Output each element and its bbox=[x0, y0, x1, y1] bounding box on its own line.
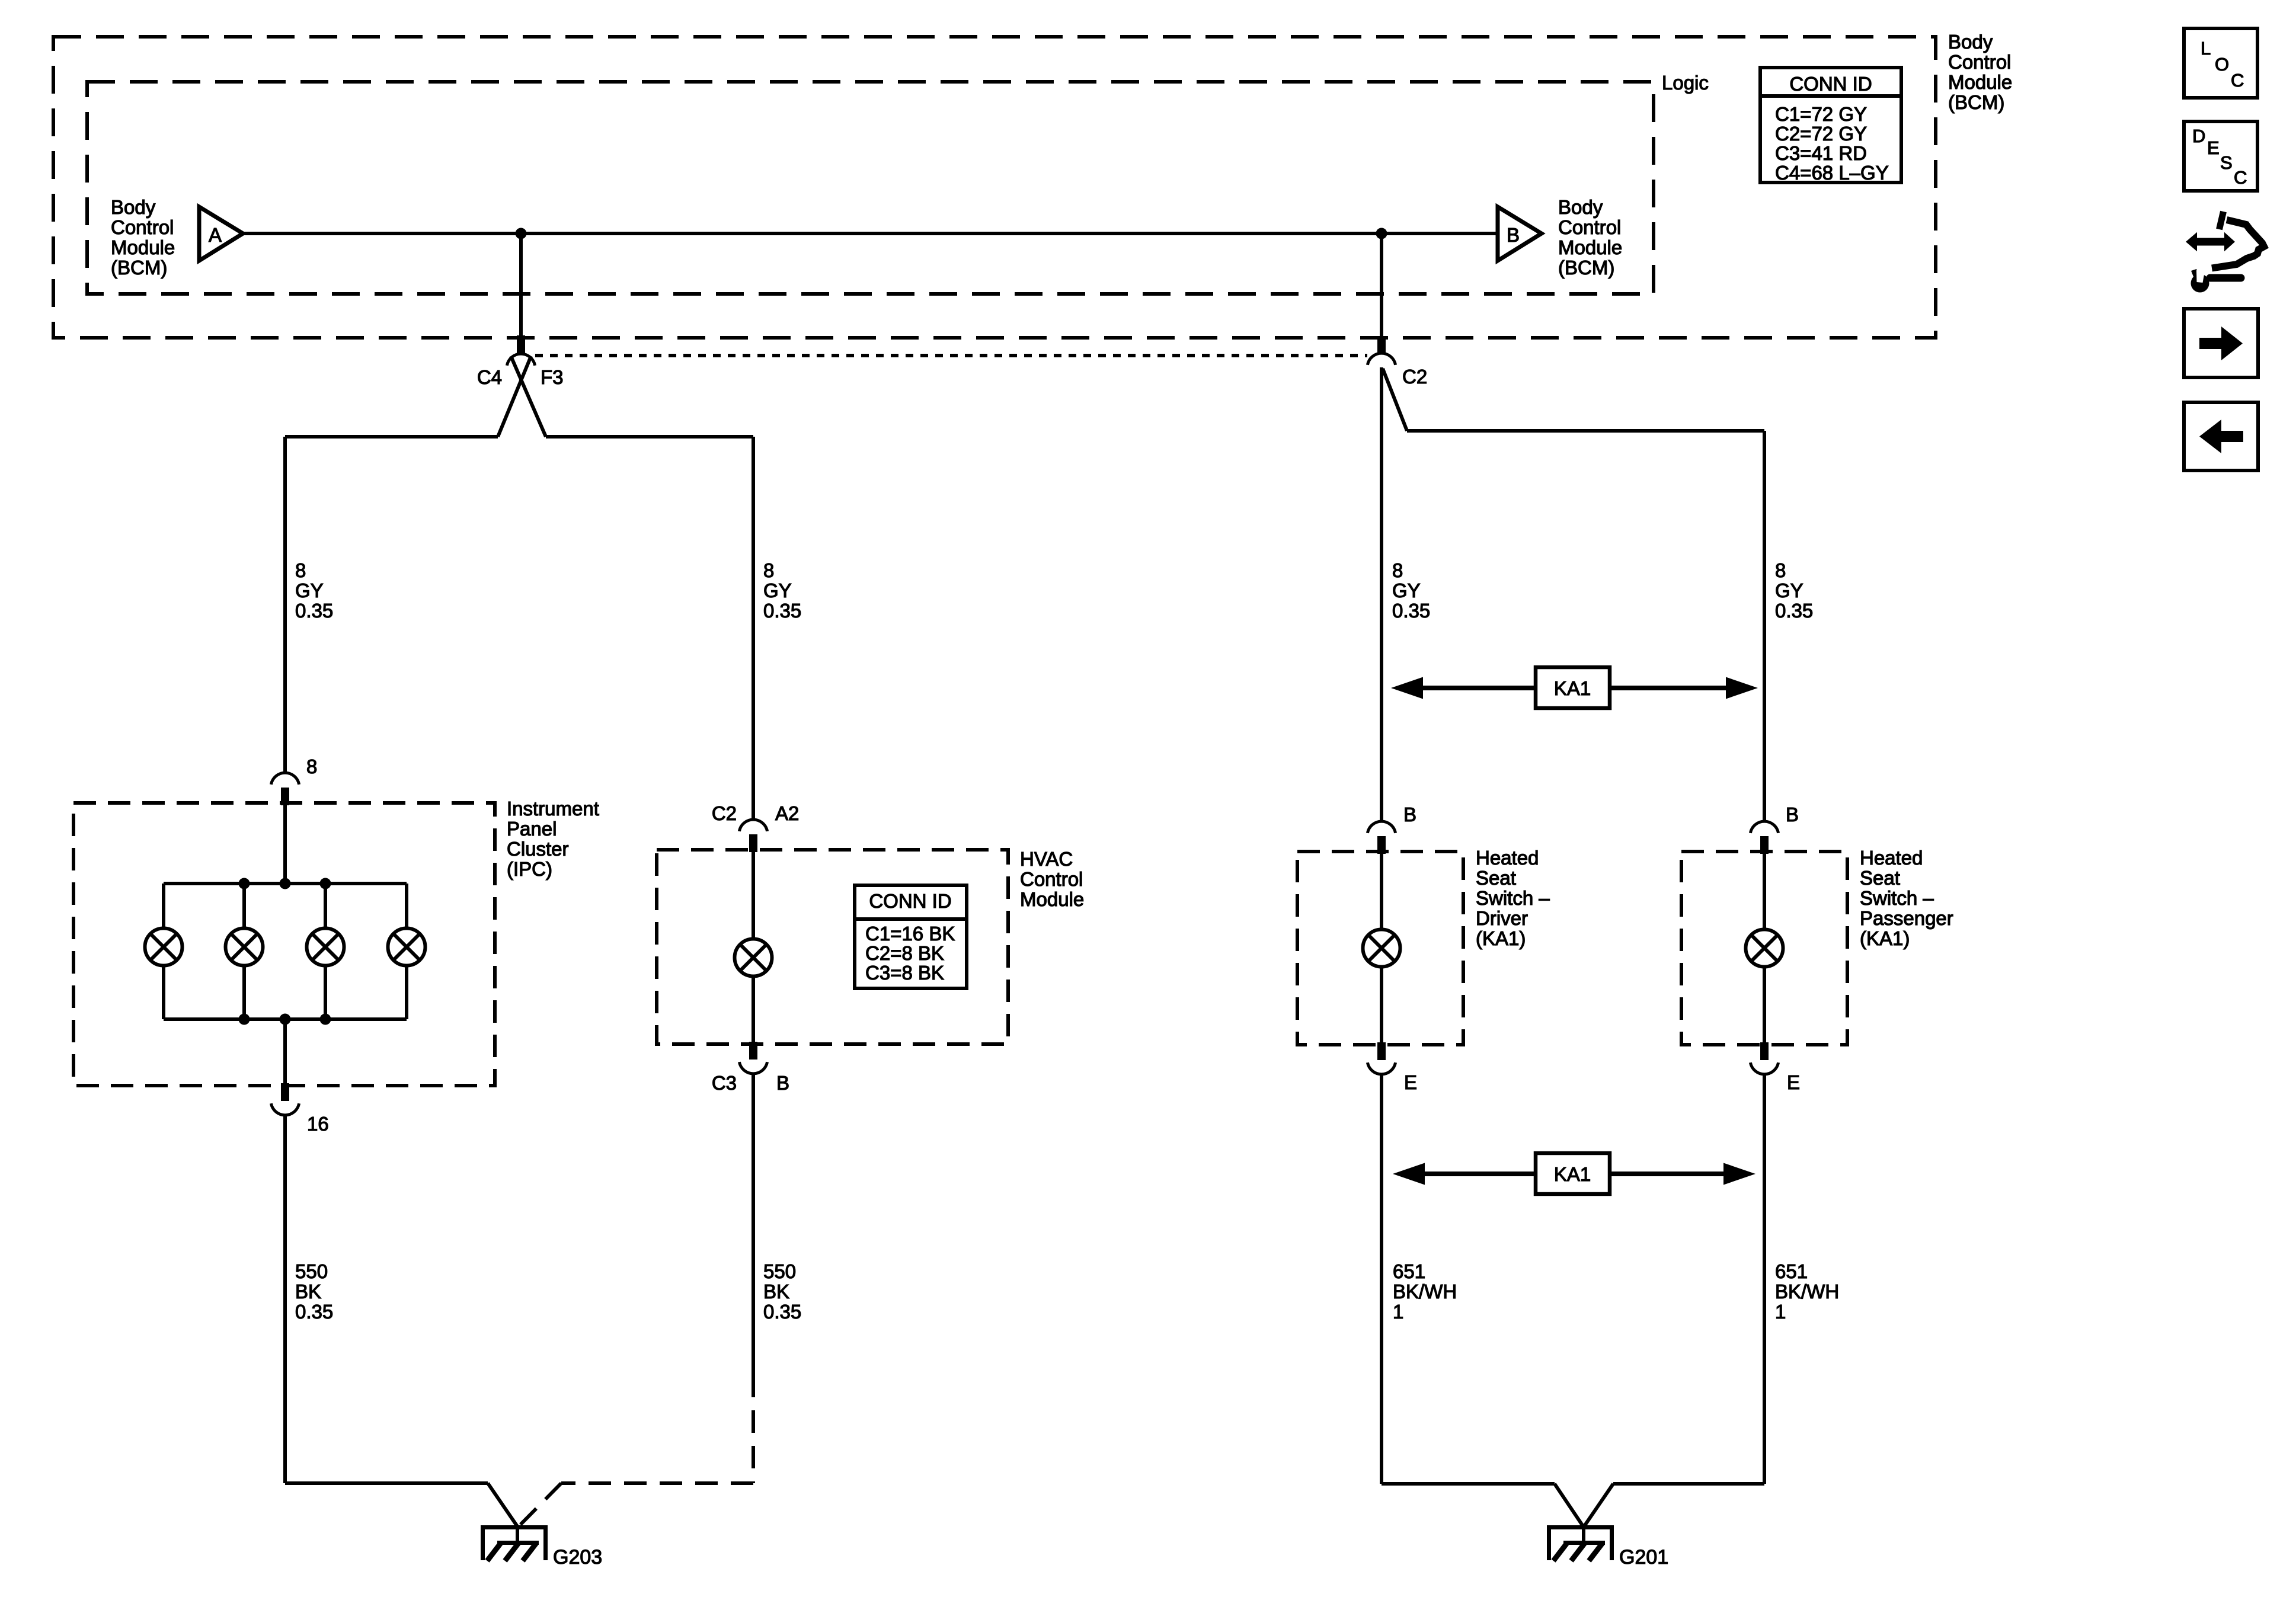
svg-text:(BCM): (BCM) bbox=[1948, 91, 2004, 113]
svg-text:D: D bbox=[2192, 126, 2205, 146]
svg-text:Control: Control bbox=[111, 216, 174, 238]
svg-text:S: S bbox=[2220, 152, 2233, 173]
svg-text:G203: G203 bbox=[553, 1546, 602, 1569]
svg-text:B: B bbox=[1786, 804, 1799, 825]
svg-text:0.35: 0.35 bbox=[1775, 600, 1813, 622]
svg-text:Body: Body bbox=[1558, 196, 1603, 218]
svg-text:KA1: KA1 bbox=[1554, 677, 1591, 699]
svg-text:Passenger: Passenger bbox=[1860, 907, 1953, 929]
svg-text:8: 8 bbox=[763, 559, 774, 581]
svg-text:651: 651 bbox=[1393, 1260, 1425, 1282]
svg-text:CONN ID: CONN ID bbox=[869, 890, 951, 912]
svg-text:Module: Module bbox=[1558, 236, 1622, 258]
svg-text:C3=41 RD: C3=41 RD bbox=[1775, 142, 1867, 164]
svg-text:8: 8 bbox=[295, 559, 306, 581]
svg-text:(IPC): (IPC) bbox=[507, 858, 552, 880]
svg-text:BK/WH: BK/WH bbox=[1393, 1281, 1457, 1302]
svg-text:1: 1 bbox=[1393, 1301, 1403, 1323]
svg-text:Switch –: Switch – bbox=[1476, 887, 1550, 909]
svg-text:E: E bbox=[2207, 137, 2220, 158]
svg-text:651: 651 bbox=[1775, 1260, 1808, 1282]
svg-text:0.35: 0.35 bbox=[763, 1301, 801, 1323]
svg-text:C2=8 BK: C2=8 BK bbox=[865, 942, 944, 964]
svg-text:B: B bbox=[776, 1072, 789, 1094]
svg-text:E: E bbox=[1404, 1071, 1417, 1093]
svg-text:L: L bbox=[2201, 38, 2211, 59]
svg-text:HVAC: HVAC bbox=[1020, 848, 1073, 870]
svg-text:Logic: Logic bbox=[1662, 72, 1709, 94]
svg-text:Module: Module bbox=[111, 236, 175, 258]
svg-text:Seat: Seat bbox=[1860, 867, 1900, 889]
svg-text:Instrument: Instrument bbox=[507, 798, 599, 820]
svg-text:Heated: Heated bbox=[1860, 847, 1923, 869]
svg-text:0.35: 0.35 bbox=[295, 1301, 333, 1323]
svg-text:550: 550 bbox=[295, 1260, 328, 1282]
svg-text:Driver: Driver bbox=[1476, 907, 1528, 929]
svg-text:(KA1): (KA1) bbox=[1860, 927, 1910, 949]
svg-text:Module: Module bbox=[1948, 71, 2012, 93]
svg-text:8: 8 bbox=[1392, 559, 1403, 581]
svg-text:8: 8 bbox=[1775, 559, 1786, 581]
svg-text:Control: Control bbox=[1020, 868, 1083, 890]
svg-text:C2: C2 bbox=[1402, 366, 1427, 388]
svg-text:CONN ID: CONN ID bbox=[1789, 73, 1872, 95]
svg-text:550: 550 bbox=[763, 1260, 796, 1282]
svg-text:0.35: 0.35 bbox=[295, 600, 333, 622]
svg-text:KA1: KA1 bbox=[1554, 1163, 1591, 1185]
svg-text:GY: GY bbox=[295, 580, 324, 601]
svg-text:1: 1 bbox=[1775, 1301, 1786, 1323]
svg-text:C4=68 L–GY: C4=68 L–GY bbox=[1775, 162, 1889, 184]
svg-text:(BCM): (BCM) bbox=[1558, 257, 1614, 279]
svg-text:C3: C3 bbox=[712, 1072, 737, 1094]
svg-text:(KA1): (KA1) bbox=[1476, 927, 1526, 949]
svg-text:BK: BK bbox=[763, 1281, 789, 1302]
svg-text:C2: C2 bbox=[712, 802, 737, 824]
svg-text:Cluster: Cluster bbox=[507, 838, 569, 860]
svg-text:C: C bbox=[2231, 70, 2244, 91]
svg-text:Control: Control bbox=[1948, 51, 2011, 73]
svg-text:G201: G201 bbox=[1619, 1546, 1668, 1569]
svg-text:F3: F3 bbox=[541, 366, 564, 388]
svg-text:0.35: 0.35 bbox=[763, 600, 801, 622]
svg-text:BK/WH: BK/WH bbox=[1775, 1281, 1839, 1302]
svg-text:C2=72 GY: C2=72 GY bbox=[1775, 123, 1867, 145]
svg-text:GY: GY bbox=[763, 580, 792, 601]
svg-text:GY: GY bbox=[1775, 580, 1803, 601]
svg-text:Body: Body bbox=[111, 196, 156, 218]
svg-text:(BCM): (BCM) bbox=[111, 257, 167, 279]
svg-text:GY: GY bbox=[1392, 580, 1421, 601]
svg-text:C4: C4 bbox=[477, 366, 502, 388]
svg-text:BK: BK bbox=[295, 1281, 321, 1302]
svg-text:Heated: Heated bbox=[1476, 847, 1539, 869]
svg-text:E: E bbox=[1787, 1071, 1800, 1093]
svg-text:O: O bbox=[2215, 54, 2229, 75]
svg-text:Module: Module bbox=[1020, 888, 1084, 910]
svg-text:Switch –: Switch – bbox=[1860, 887, 1934, 909]
svg-text:B: B bbox=[1403, 804, 1416, 825]
svg-text:Seat: Seat bbox=[1476, 867, 1516, 889]
svg-text:Control: Control bbox=[1558, 216, 1621, 238]
svg-text:C: C bbox=[2234, 167, 2247, 188]
svg-text:0.35: 0.35 bbox=[1392, 600, 1430, 622]
svg-text:Panel: Panel bbox=[507, 818, 557, 840]
svg-text:A2: A2 bbox=[775, 802, 799, 824]
svg-text:C1=72 GY: C1=72 GY bbox=[1775, 103, 1867, 125]
svg-text:A: A bbox=[209, 224, 222, 246]
svg-text:B: B bbox=[1507, 224, 1520, 246]
svg-text:16: 16 bbox=[307, 1113, 329, 1135]
svg-text:Body: Body bbox=[1948, 31, 1993, 53]
svg-text:C1=16 BK: C1=16 BK bbox=[865, 923, 955, 945]
svg-text:8: 8 bbox=[306, 756, 317, 777]
svg-text:C3=8 BK: C3=8 BK bbox=[865, 962, 944, 984]
